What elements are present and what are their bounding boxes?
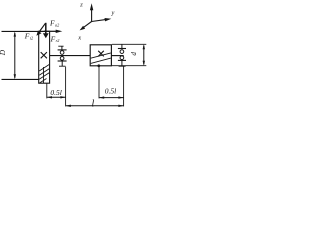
extension line at bearing B1 bbox=[65, 67, 67, 107]
dimension l bbox=[66, 105, 124, 107]
gear 2 body (left, tall rect) bbox=[39, 31, 50, 83]
shaft segment box to right end bbox=[111, 55, 123, 57]
svg-text:0.5l: 0.5l bbox=[50, 88, 61, 97]
bearing B2 (right) bbox=[118, 44, 126, 66]
label Fr2 bbox=[50, 34, 60, 43]
label z bbox=[79, 1, 83, 8]
dimension 0.5l (right) bbox=[99, 96, 124, 98]
label 0.5l (left) bbox=[50, 88, 61, 97]
gear 2 shaft fixing mark (x) bbox=[41, 52, 47, 58]
svg-text:r2: r2 bbox=[56, 38, 60, 43]
force arrow Ft2 (tangential, down-left along x) bbox=[36, 23, 45, 36]
extension line d bottom bbox=[112, 65, 146, 67]
top reference line (gear top edge extended left) bbox=[2, 30, 50, 32]
extension line at gear (0.5l left) bbox=[46, 83, 48, 98]
middle box helical tooth line 1 bbox=[91, 53, 111, 58]
svg-text:d: d bbox=[130, 52, 138, 56]
label l bbox=[92, 98, 95, 109]
force arrow Fa2 (axial, along +y) bbox=[44, 30, 62, 33]
middle box helical tooth line 2 bbox=[91, 58, 111, 63]
label x bbox=[77, 34, 81, 41]
svg-text:a2: a2 bbox=[55, 23, 59, 28]
svg-text:D: D bbox=[0, 49, 7, 56]
svg-text:l: l bbox=[92, 98, 95, 109]
svg-text:t2: t2 bbox=[30, 35, 33, 40]
extension line at load dot bbox=[98, 66, 100, 98]
axis z (up) bbox=[90, 3, 93, 22]
label d bbox=[130, 52, 138, 56]
extension line d top bbox=[112, 43, 146, 45]
label D bbox=[0, 49, 7, 56]
axis y (right, slight rise) bbox=[92, 18, 112, 22]
label y bbox=[111, 10, 115, 17]
axis x (down-left) bbox=[80, 22, 92, 31]
middle box shaft fixing mark (x) bbox=[98, 51, 104, 57]
bottom reference line (gear pitch line extended left) bbox=[2, 78, 39, 80]
gear 2 helical tooth lines (hatch) bbox=[39, 65, 49, 84]
dimension D (gear diameter) bbox=[14, 31, 16, 79]
dimension d bbox=[143, 44, 145, 65]
dimension 0.5l (left) bbox=[47, 96, 66, 98]
bearing B1 (left) bbox=[58, 46, 67, 66]
force arrow Fr2 (radial, down) bbox=[43, 23, 49, 38]
svg-text:x: x bbox=[77, 34, 81, 41]
node: load point on box bottom (dot) bbox=[97, 64, 100, 67]
extension line at shaft right end bbox=[123, 66, 125, 106]
label 0.5l (right) bbox=[105, 87, 116, 96]
label Ft2 bbox=[24, 32, 33, 41]
shaft segment gear to middle box bbox=[50, 55, 91, 57]
middle gear/coupling box bbox=[90, 45, 111, 66]
svg-text:z: z bbox=[79, 1, 83, 8]
label Fa2 bbox=[49, 18, 59, 27]
svg-text:y: y bbox=[111, 10, 115, 17]
svg-text:0.5l: 0.5l bbox=[105, 87, 116, 96]
